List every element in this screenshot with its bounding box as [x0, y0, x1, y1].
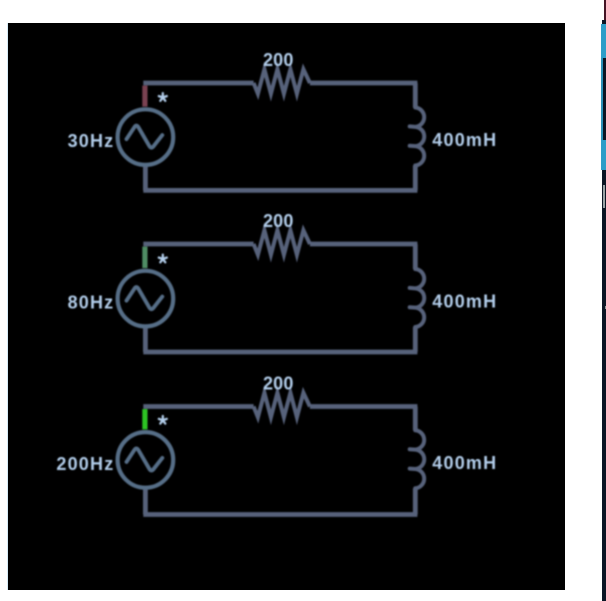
label 200Hz for V3: [56, 454, 114, 474]
wire colored segment (V1 top lead, probe color): [142, 86, 147, 107]
wire bottom (L2 to V2): [143, 350, 417, 355]
right window sliver: cyan block: [601, 24, 606, 58]
wire top-left segment (V3 to R3): [143, 404, 253, 409]
label 200 for R2: [263, 211, 294, 231]
right window sliver: base navy strip: [602, 20, 606, 601]
wire bottom (L3 to V3): [143, 512, 417, 517]
right window sliver: cyan line: [601, 58, 602, 170]
asterisk polarity marker for V3: [159, 416, 167, 424]
wire left lower (V2 bottom lead): [143, 327, 148, 352]
wire colored segment (V3 top lead, probe color): [142, 409, 147, 429]
svg-text:80Hz: 80Hz: [68, 293, 115, 313]
svg-text:200: 200: [263, 374, 294, 394]
wire right upper (L1 top lead): [413, 83, 418, 108]
wire top-right segment (R3 to L3): [310, 404, 418, 409]
right window sliver: cyan block 2: [601, 140, 606, 170]
svg-text:200: 200: [263, 50, 294, 70]
AC source V3 (200Hz): [118, 432, 174, 488]
wire bottom (L1 to V1): [143, 188, 417, 193]
label 200 for R1: [263, 50, 294, 70]
svg-text:400mH: 400mH: [432, 130, 497, 150]
AC source V2 (80Hz): [118, 271, 174, 327]
wire top-right segment (R2 to L2): [310, 242, 418, 247]
label 200 for R3: [263, 374, 294, 394]
label 400mH for L2: [432, 292, 497, 312]
right window sliver: maroon top block: [604, 0, 606, 20]
label 400mH for L3: [432, 453, 497, 473]
right window sliver: gray band: [605, 306, 606, 309]
wire right upper (L2 top lead): [413, 244, 418, 269]
resistor R3 200: [254, 393, 310, 418]
wire right lower (L3 bottom lead): [413, 488, 418, 514]
resistor R2 200: [254, 230, 310, 255]
inductor L3 400mH: [410, 430, 425, 488]
wire right lower (L1 bottom lead): [413, 166, 418, 191]
wire right upper (L3 top lead): [413, 407, 418, 431]
wire left lower (V3 bottom lead): [143, 488, 148, 515]
resistor R1 200: [254, 69, 310, 94]
svg-text:200: 200: [263, 211, 294, 231]
svg-text:400mH: 400mH: [432, 453, 497, 473]
label 30Hz for V1: [68, 131, 115, 151]
inductor L1 400mH: [410, 108, 425, 166]
asterisk polarity marker for V2: [159, 255, 167, 263]
wire top-right segment (R1 to L1): [310, 81, 418, 86]
wire top-left segment (V1 to R1): [143, 81, 253, 86]
wire right lower (L2 bottom lead): [413, 327, 418, 352]
inductor L2 400mH: [410, 269, 425, 327]
label 80Hz for V2: [68, 293, 115, 313]
asterisk polarity marker for V1: [159, 93, 167, 101]
canvas left edge highlight: [7, 23, 8, 590]
svg-text:400mH: 400mH: [432, 292, 497, 312]
right window sliver: gray mark: [603, 185, 605, 208]
wire top-left segment (V2 to R2): [143, 242, 253, 247]
wire colored segment (V2 top lead, probe color): [142, 247, 147, 269]
wire left lower (V1 bottom lead): [143, 165, 148, 190]
AC source V1 (30Hz): [118, 109, 174, 165]
svg-text:30Hz: 30Hz: [68, 131, 115, 151]
svg-text:200Hz: 200Hz: [56, 454, 114, 474]
label 400mH for L1: [432, 130, 497, 150]
